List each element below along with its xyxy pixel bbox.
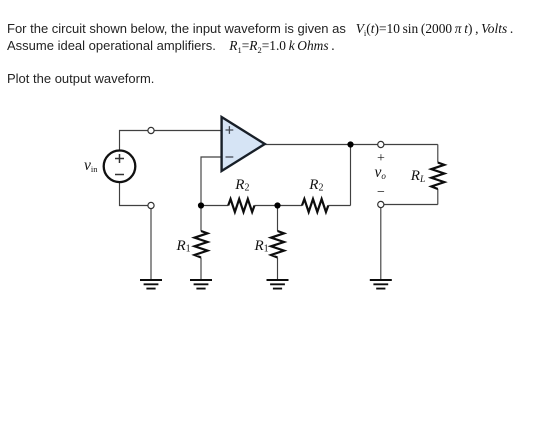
wire left terminal to ground [150, 206, 152, 280]
label vo [375, 164, 386, 182]
vin plus sign [115, 154, 124, 163]
vin minus sign [115, 174, 124, 176]
wire R1a bottom leg to ground [200, 258, 202, 280]
wire output junction down to feedback [350, 145, 352, 206]
label vo minus [377, 185, 385, 201]
problem statement line 3 [7, 71, 154, 86]
ground under R1 first [190, 280, 212, 289]
wire R1b bottom leg to ground [277, 258, 279, 280]
resistor R1 second zigzag [271, 231, 284, 258]
label R1 first [177, 238, 191, 255]
ground under vo terminal [370, 280, 392, 289]
ground under left terminal [140, 280, 162, 289]
wire op-amp minus input to feedback node [201, 157, 222, 206]
label vin [84, 157, 98, 175]
label vo plus [377, 151, 385, 167]
wire RL bottom leg [437, 189, 439, 205]
terminal circle input top [148, 127, 154, 133]
op-amp plus input label [226, 126, 234, 134]
problem statement line 2 [7, 38, 335, 55]
wire op-amp output to RL top corner [265, 144, 438, 146]
wire vin bottom to left terminal [120, 182, 152, 206]
ground under R1 second [267, 280, 289, 289]
resistor R1 first zigzag [195, 231, 208, 258]
voltage source vin circle [104, 151, 136, 183]
wire RL top leg [437, 145, 439, 163]
wire node A to R2a [201, 205, 228, 207]
wire vo bottom terminal to ground [380, 205, 382, 280]
wire R1a top leg [200, 206, 202, 232]
label R2 second [309, 177, 323, 194]
terminal circle input bottom [148, 202, 154, 208]
op-amp U1 triangle [222, 117, 265, 171]
resistor R2 first zigzag [228, 199, 254, 212]
wire vin top to op-amp + input [120, 131, 222, 151]
terminal circle vo plus [378, 141, 384, 147]
resistor R2 second zigzag [302, 199, 328, 212]
junction node A dot [198, 202, 204, 208]
wire R2b to junction vertical [328, 205, 350, 207]
junction output node dot [347, 141, 353, 147]
wire R1b top leg [277, 206, 279, 232]
label R2 first [235, 177, 249, 194]
label R1 second [255, 238, 269, 255]
resistor RL zigzag [431, 163, 444, 190]
label RL [411, 168, 425, 185]
junction node B dot [274, 202, 280, 208]
wire RL bottom to vo terminal [381, 204, 438, 206]
wire R2a to R2b through node B [255, 205, 303, 207]
problem statement line 1 [7, 21, 513, 38]
op-amp minus input label [226, 156, 234, 158]
terminal circle vo minus [378, 201, 384, 207]
